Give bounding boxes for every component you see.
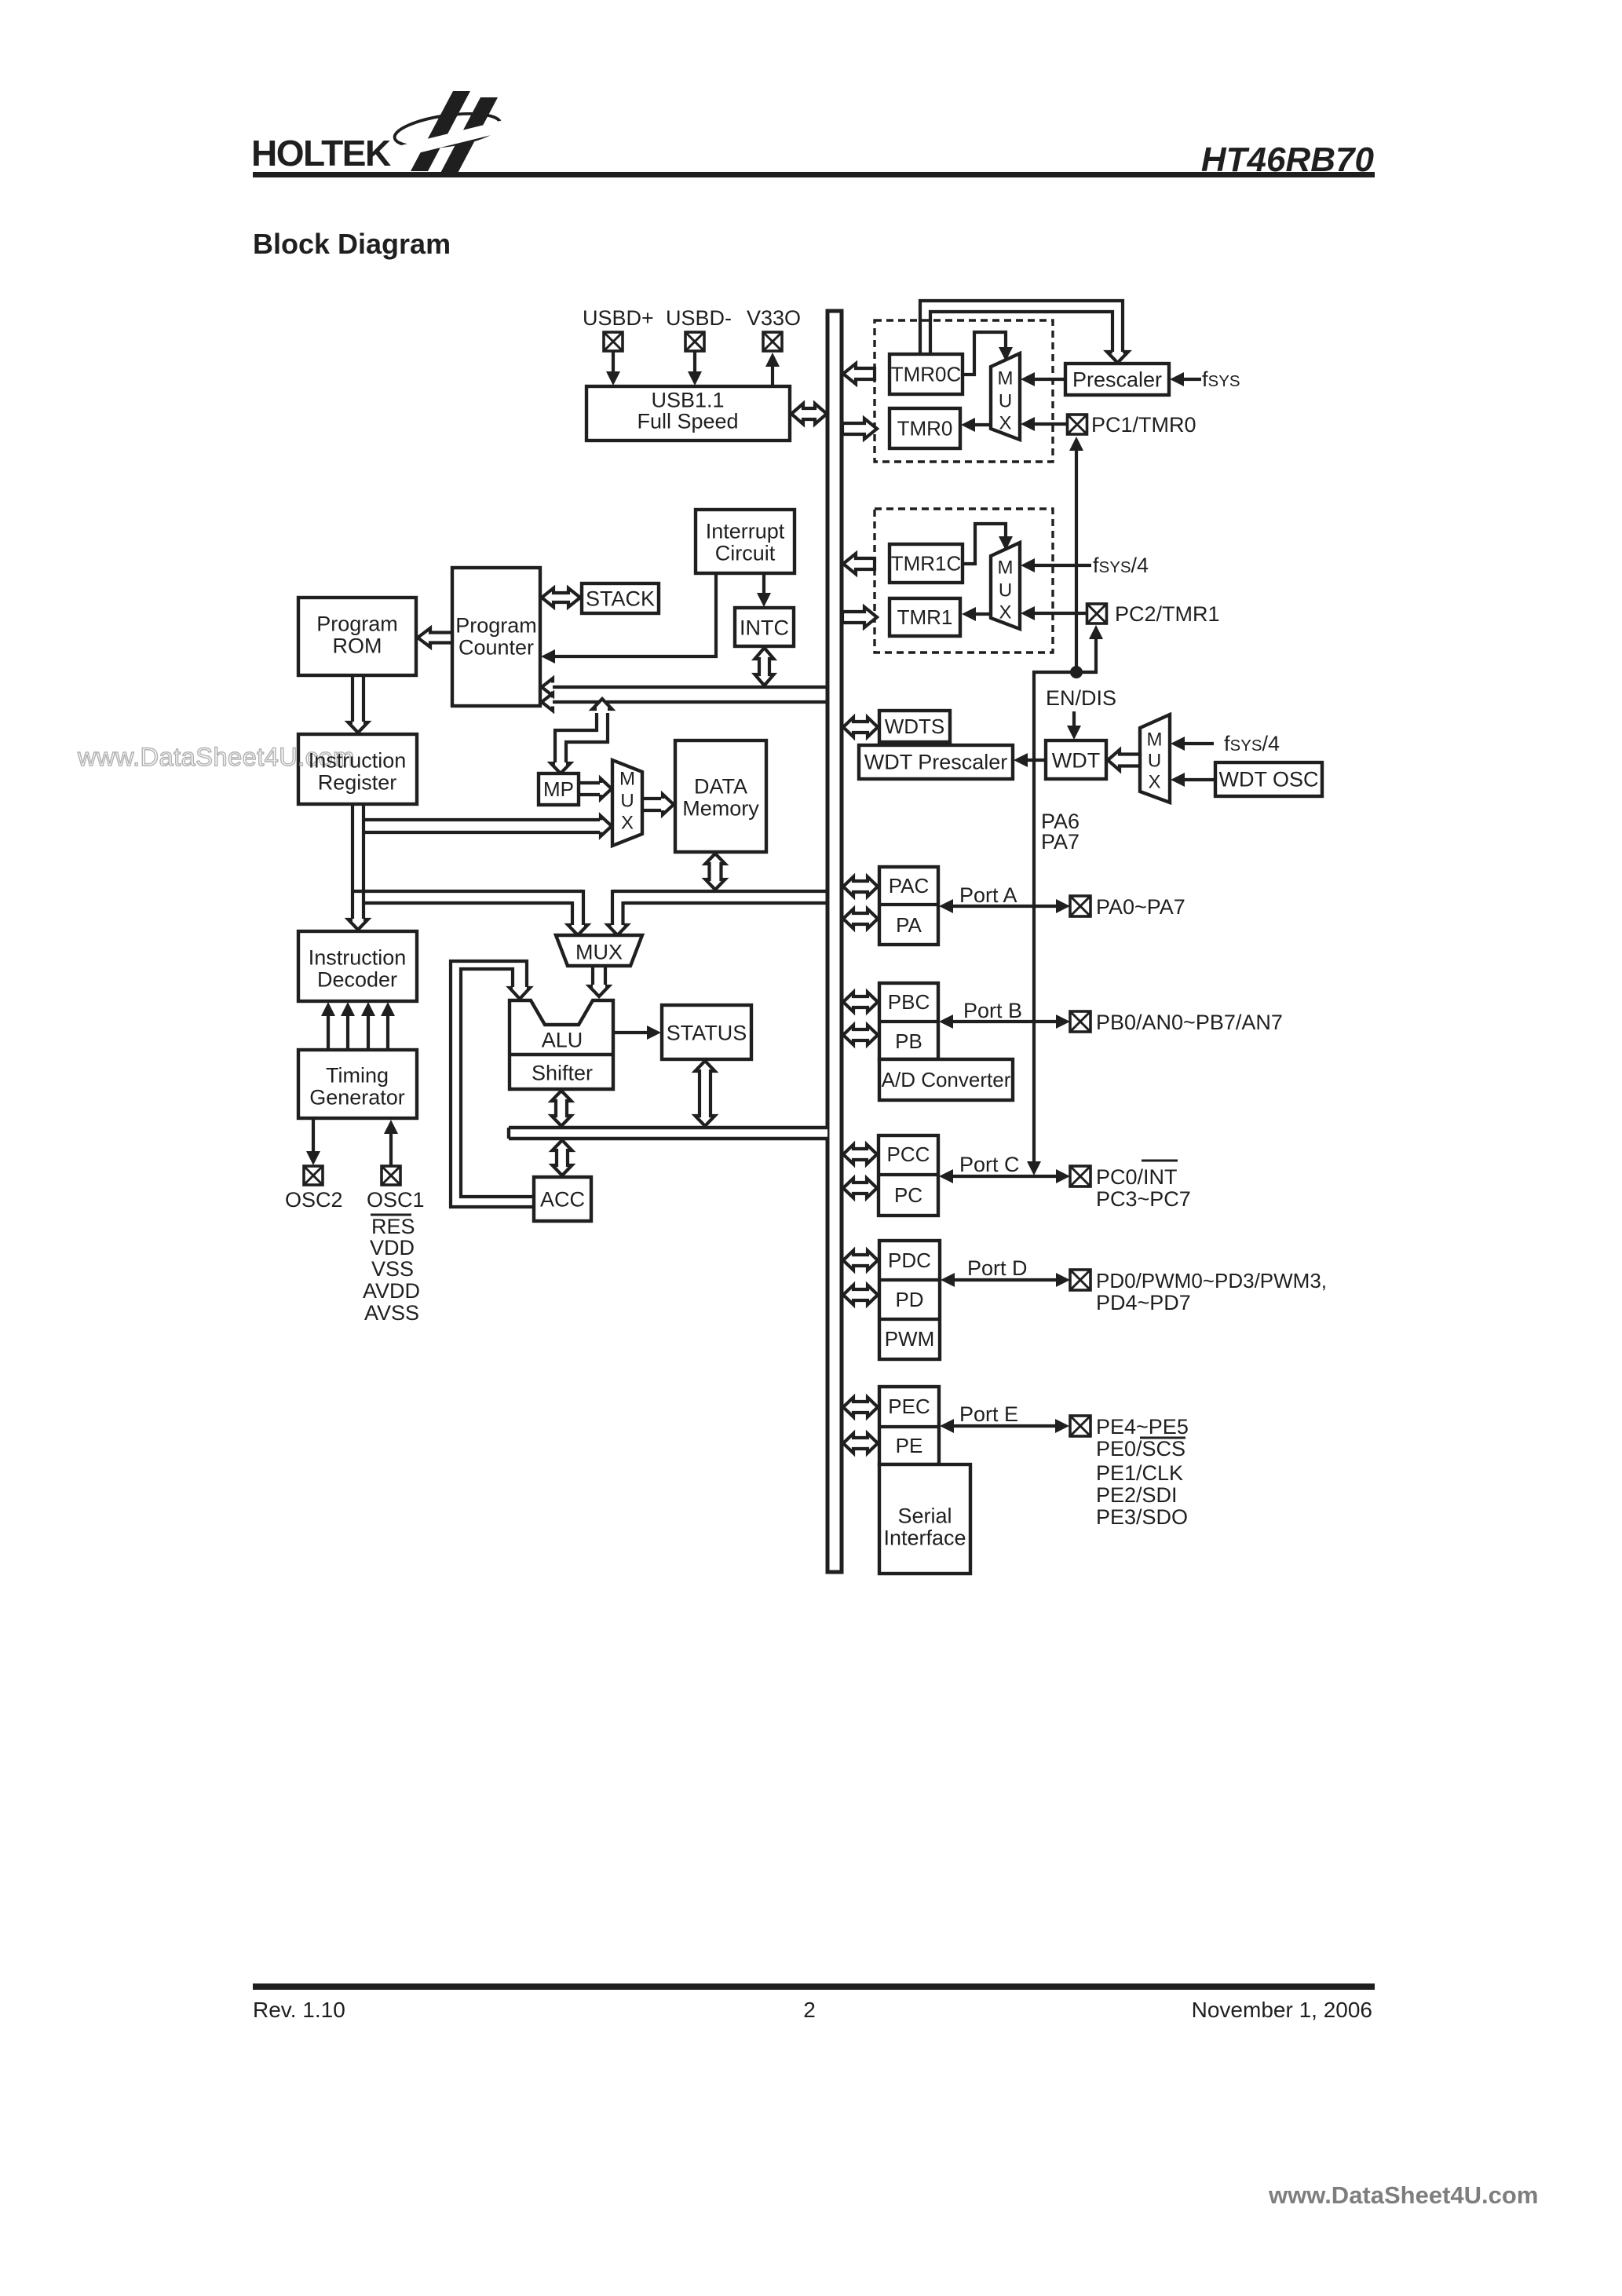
register TMR1C xyxy=(890,544,963,583)
register TMR0C xyxy=(890,354,963,394)
mux MUX (data memory address) xyxy=(612,760,642,846)
svg-text:M: M xyxy=(619,768,635,789)
block Program ROM xyxy=(298,598,416,675)
label OSC2 xyxy=(285,1188,343,1212)
label Port D xyxy=(967,1256,1028,1280)
wire USBD- to USB block xyxy=(688,351,702,386)
wire system bus to PCC (hollow double arrow) xyxy=(843,1145,877,1164)
wire system bus to TMR0 (hollow arrow right) xyxy=(842,419,877,439)
pin OSC1 xyxy=(382,1166,400,1185)
label OSC1 xyxy=(367,1188,425,1212)
watermark www.DataSheet4U.com (left, outline gray) xyxy=(77,743,355,771)
svg-text:PD: PD xyxy=(895,1288,923,1311)
svg-text:TMR1: TMR1 xyxy=(897,605,953,629)
label USBD- xyxy=(666,306,732,330)
label PD0/PWM0~PD3/PWM3, xyxy=(1096,1269,1327,1292)
svg-text:Timing: Timing xyxy=(326,1063,389,1087)
svg-text:PD0/PWM0~PD3/PWM3,: PD0/PWM0~PD3/PWM3, xyxy=(1096,1269,1327,1292)
svg-text:Shifter: Shifter xyxy=(532,1061,593,1084)
wire fsys/4 to MUX (Timer1) xyxy=(1021,558,1091,572)
svg-text:Port D: Port D xyxy=(967,1256,1028,1280)
wire MUX to TMR0 xyxy=(961,418,991,432)
block Instruction Register xyxy=(298,734,417,804)
svg-text:MUX: MUX xyxy=(575,940,623,963)
wire bus line 1 (bus to Program Counter) xyxy=(542,678,829,696)
label PE3/SDO xyxy=(1096,1505,1188,1529)
header rule xyxy=(253,172,1375,177)
label PC2/TMR1 xyxy=(1115,602,1220,626)
wire Shifter to internal bus (hollow double arrow) xyxy=(552,1091,572,1126)
wire Program Counter to Program ROM (hollow arrow) xyxy=(418,628,452,647)
footer revision xyxy=(253,1998,345,2022)
pin USBD- xyxy=(685,332,704,351)
wire USB block to V33O pin xyxy=(765,353,780,386)
label Port B xyxy=(963,999,1022,1022)
svg-text:Program: Program xyxy=(455,613,537,637)
block ACC xyxy=(534,1177,591,1221)
label USBD+ xyxy=(583,306,654,330)
block Interrupt Circuit xyxy=(696,510,795,573)
wire bus line 2 (bus to Program Counter) xyxy=(542,693,829,711)
wire system bus to Timer1 module (hollow arrow left) xyxy=(843,554,875,574)
block INTC xyxy=(735,608,794,646)
block Serial Interface xyxy=(879,1464,970,1574)
svg-text:INTC: INTC xyxy=(740,616,789,639)
footer page number xyxy=(803,1998,816,2022)
svg-text:PC1/TMR0: PC1/TMR0 xyxy=(1091,413,1196,437)
svg-text:TMR0C: TMR0C xyxy=(891,363,962,386)
wire internal line to system bus (upper right) xyxy=(612,890,829,893)
wire node to PC2 pin xyxy=(1076,625,1103,672)
svg-text:USBD+: USBD+ xyxy=(583,306,654,330)
svg-text:A/D Converter: A/D Converter xyxy=(882,1068,1011,1091)
wire TMR0C to MUX select xyxy=(963,332,1013,375)
mux MUX (ALU operand) xyxy=(556,935,642,966)
system data bus (vertical bus bar) xyxy=(827,311,842,1572)
label PE1/CLK xyxy=(1096,1461,1183,1485)
svg-text:PC0/INT: PC0/INT xyxy=(1096,1165,1178,1189)
label V33O xyxy=(747,306,801,330)
label fsys xyxy=(1202,367,1240,391)
wire USB block to system bus (hollow double arrow) xyxy=(791,404,827,424)
svg-text:Instruction: Instruction xyxy=(309,748,407,772)
register PBC and PB xyxy=(879,983,938,1059)
label PD4~PD7 xyxy=(1096,1291,1191,1314)
svg-text:PA: PA xyxy=(896,913,922,937)
svg-text:Port E: Port E xyxy=(959,1402,1018,1426)
svg-text:Interrupt: Interrupt xyxy=(706,519,785,543)
wire WDT OSC to MUX (WDT) xyxy=(1171,773,1215,787)
wire MUX to TMR1 xyxy=(962,607,991,621)
wire system bus to Timer0 module (hollow arrow left) xyxy=(843,364,875,384)
pin PB0/AN0~PB7/AN7 xyxy=(1070,1011,1090,1032)
pin V33O xyxy=(763,332,782,351)
wire WDT to WDT Prescaler xyxy=(1014,753,1046,767)
svg-text:AVSS: AVSS xyxy=(364,1301,419,1325)
wire system bus to WDTS (hollow double arrow) xyxy=(843,718,878,737)
label PC1/TMR0 xyxy=(1091,413,1196,437)
svg-text:fSYS/4: fSYS/4 xyxy=(1224,732,1280,755)
wire Interrupt Circuit to INTC xyxy=(757,573,771,607)
register PAC and PA xyxy=(879,867,938,945)
wire Port B to pin xyxy=(939,1015,1070,1029)
svg-text:U: U xyxy=(999,390,1012,411)
svg-text:M: M xyxy=(998,367,1014,389)
wire TMR1C to MUX select xyxy=(963,524,1013,564)
label PA6 xyxy=(1041,810,1080,833)
svg-text:Decoder: Decoder xyxy=(317,967,397,991)
svg-text:TMR1C: TMR1C xyxy=(891,552,962,576)
label VDD xyxy=(370,1236,415,1260)
register PCC and PC xyxy=(879,1135,938,1216)
svg-text:VSS: VSS xyxy=(371,1257,414,1281)
wire Timing Generator to Instruction Decoder (4 lines) xyxy=(321,1002,395,1050)
label AVDD xyxy=(363,1279,420,1303)
wire Port A to pin xyxy=(939,899,1070,913)
wire Program ROM to Instruction Register (hollow wire) xyxy=(349,675,368,733)
svg-text:U: U xyxy=(1148,750,1161,771)
internal bus (horizontal bus bar) xyxy=(509,1128,827,1139)
pin PC0/INT xyxy=(1070,1166,1090,1186)
wire system bus to PEC (hollow double arrow) xyxy=(843,1398,878,1417)
pin OSC2 xyxy=(304,1166,323,1185)
svg-text:www.DataSheet4U.com: www.DataSheet4U.com xyxy=(1268,2181,1538,2209)
wire PC1 pin down to node xyxy=(1069,437,1083,672)
title Block Diagram xyxy=(253,228,451,260)
label Port E xyxy=(959,1402,1018,1426)
block STACK xyxy=(582,583,659,613)
svg-text:STATUS: STATUS xyxy=(667,1021,747,1044)
svg-text:PE: PE xyxy=(896,1434,923,1457)
wire Program Counter to STACK (hollow double arrow) xyxy=(542,588,580,607)
register MP xyxy=(539,773,579,805)
register TMR0 xyxy=(890,408,960,448)
wire fsys to Prescaler xyxy=(1170,372,1201,386)
svg-text:Instruction: Instruction xyxy=(309,945,407,969)
wire ACC to ALU (hollow feedback loop) xyxy=(451,961,534,1207)
svg-text:M: M xyxy=(998,557,1014,578)
svg-text:PA0~PA7: PA0~PA7 xyxy=(1096,895,1185,919)
svg-text:HOLTEK: HOLTEK xyxy=(251,133,391,174)
svg-text:PE1/CLK: PE1/CLK xyxy=(1096,1461,1183,1485)
wire MUX to WDT (hollow arrow) xyxy=(1108,750,1140,770)
part number HT46RB70 xyxy=(1201,141,1375,179)
svg-text:PE0/SCS: PE0/SCS xyxy=(1096,1437,1185,1461)
svg-text:PE4~PE5: PE4~PE5 xyxy=(1096,1415,1189,1439)
label Port A xyxy=(959,883,1017,907)
block Instruction Decoder xyxy=(298,931,417,1001)
svg-text:PC: PC xyxy=(894,1183,922,1207)
svg-text:PD4~PD7: PD4~PD7 xyxy=(1096,1291,1191,1314)
wire system bus to PE (hollow double arrow) xyxy=(843,1434,878,1453)
pin PC2/TMR1 xyxy=(1087,604,1107,623)
pin USBD+ xyxy=(604,332,623,351)
svg-text:Rev. 1.10: Rev. 1.10 xyxy=(253,1998,345,2022)
svg-text:USB1.1: USB1.1 xyxy=(651,388,724,411)
wire ALU to STATUS xyxy=(613,1026,661,1040)
Holtek logo wordmark HOLTEK xyxy=(251,133,391,174)
dashed box Timer0 module xyxy=(875,320,1053,462)
svg-text:PB: PB xyxy=(895,1029,922,1053)
svg-text:Program: Program xyxy=(316,612,398,635)
block Program Counter xyxy=(452,568,540,706)
block WDT Prescaler xyxy=(859,745,1013,779)
svg-text:Port A: Port A xyxy=(959,883,1017,907)
svg-text:WDT Prescaler: WDT Prescaler xyxy=(864,750,1008,773)
svg-text:EN/DIS: EN/DIS xyxy=(1046,686,1116,710)
wire internal bus to ACC (hollow double arrow) xyxy=(553,1140,572,1175)
block Prescaler xyxy=(1065,364,1169,395)
svg-text:DATA: DATA xyxy=(694,774,747,798)
svg-text:AVDD: AVDD xyxy=(363,1279,420,1303)
svg-text:WDTS: WDTS xyxy=(885,715,945,738)
label PA0~PA7 xyxy=(1096,895,1185,919)
svg-text:PAC: PAC xyxy=(889,874,930,898)
svg-text:fSYS: fSYS xyxy=(1202,367,1240,391)
pin PA0~PA7 xyxy=(1070,896,1090,916)
svg-text:U: U xyxy=(999,579,1012,601)
wire PC2 pin to MUX (Timer1) xyxy=(1021,606,1087,620)
wire MUX to Data Memory xyxy=(642,795,674,815)
svg-text:November 1, 2006: November 1, 2006 xyxy=(1192,1998,1372,2022)
wire Timing Generator to OSC2 xyxy=(306,1118,320,1165)
svg-text:Counter: Counter xyxy=(458,635,534,659)
footer rule xyxy=(253,1983,1375,1990)
svg-text:Block Diagram: Block Diagram xyxy=(253,228,451,260)
register TMR1 xyxy=(890,598,960,636)
svg-text:PCC: PCC xyxy=(887,1143,930,1166)
wire MUX to ALU xyxy=(590,966,609,996)
svg-text:PDC: PDC xyxy=(888,1249,931,1272)
svg-text:X: X xyxy=(1148,771,1160,792)
svg-text:WDT OSC: WDT OSC xyxy=(1219,767,1319,791)
svg-text:fSYS/4: fSYS/4 xyxy=(1093,554,1149,577)
svg-text:Memory: Memory xyxy=(682,796,759,820)
node junction (EN/DIS net) xyxy=(1070,666,1083,678)
label fsys/4 (WDT) xyxy=(1224,732,1280,755)
wire USBD+ to USB block xyxy=(606,351,620,386)
wire system bus to PAC (hollow double arrow) xyxy=(843,877,878,897)
svg-text:ROM: ROM xyxy=(333,634,382,657)
svg-text:Port C: Port C xyxy=(959,1153,1020,1176)
svg-text:PC2/TMR1: PC2/TMR1 xyxy=(1115,602,1220,626)
svg-text:PEC: PEC xyxy=(888,1395,930,1418)
svg-text:Interface: Interface xyxy=(883,1526,966,1549)
label Port C xyxy=(959,1153,1020,1176)
svg-text:Generator: Generator xyxy=(309,1085,405,1109)
wire Port E to pin xyxy=(940,1419,1069,1433)
svg-text:M: M xyxy=(1147,729,1163,750)
wire internal line segment (lower left) xyxy=(363,901,572,905)
svg-text:ALU: ALU xyxy=(542,1028,583,1051)
wire bus to MUX right input (hollow riser) xyxy=(608,890,627,935)
wire OSC1 to Timing Generator xyxy=(384,1120,398,1167)
svg-text:VDD: VDD xyxy=(370,1236,415,1260)
wire internal line to system bus (upper left) xyxy=(353,890,583,893)
block A/D Converter xyxy=(879,1059,1013,1100)
block WDT OSC xyxy=(1215,762,1322,796)
svg-text:Register: Register xyxy=(318,770,397,794)
wire Instruction Register to MUX (data memory) xyxy=(363,816,612,836)
wire Instruction Register trunk down xyxy=(353,804,363,919)
svg-text:PB0/AN0~PB7/AN7: PB0/AN0~PB7/AN7 xyxy=(1096,1011,1283,1034)
block DATA Memory xyxy=(675,740,766,852)
register PEC and PE xyxy=(879,1387,939,1464)
wire Instruction Register to Instruction Decoder (hollow arrow) xyxy=(349,919,368,930)
wire Prescaler to MUX (Timer0) xyxy=(1021,372,1065,386)
svg-text:USBD-: USBD- xyxy=(666,306,732,330)
wire MP to MUX (data memory) xyxy=(579,779,612,799)
label RES (active low) xyxy=(371,1215,415,1238)
wire PC1 pin to MUX (Timer0) xyxy=(1021,417,1067,431)
svg-text:ACC: ACC xyxy=(540,1187,585,1211)
label EN/DIS xyxy=(1046,686,1116,710)
block STATUS xyxy=(662,1005,751,1059)
mux MUX (WDT clock) xyxy=(1140,715,1170,803)
wire Data Memory to internal line (hollow double arrow) xyxy=(706,854,725,890)
wire node to Port C line (PA6/PA7 net) xyxy=(1027,672,1076,1175)
svg-text:X: X xyxy=(621,812,634,833)
svg-text:Full Speed: Full Speed xyxy=(637,409,738,433)
svg-text:OSC2: OSC2 xyxy=(285,1188,343,1212)
watermark www.DataSheet4U.com (bottom right) xyxy=(1268,2181,1538,2209)
wire system bus to PA (hollow double arrow) xyxy=(843,909,878,929)
Holtek logo mark (double-slash in ellipse) xyxy=(393,91,513,177)
mux MUX (Timer0) xyxy=(991,353,1020,440)
svg-text:PC3~PC7: PC3~PC7 xyxy=(1096,1187,1191,1211)
label Instruction Register xyxy=(309,748,407,794)
pin PD0/PWM0 xyxy=(1070,1270,1090,1290)
wire system bus to TMR1 (hollow arrow right) xyxy=(842,607,877,627)
wire internal line segment (lower right) xyxy=(623,901,830,905)
block WDT xyxy=(1046,740,1106,779)
svg-text:X: X xyxy=(999,412,1011,433)
svg-text:WDT: WDT xyxy=(1052,748,1100,772)
label PE0/SCS (SCS active low) xyxy=(1096,1437,1185,1461)
wire system bus to PDC (hollow double arrow) xyxy=(843,1251,878,1270)
label fsys/4 (Timer1) xyxy=(1093,554,1149,577)
footer date xyxy=(1192,1998,1372,2022)
svg-text:PWM: PWM xyxy=(885,1327,935,1351)
label PE2/SDI xyxy=(1096,1483,1178,1507)
label PB0/AN0~PB7/AN7 xyxy=(1096,1011,1283,1034)
block Timing Generator xyxy=(298,1050,417,1118)
svg-text:U: U xyxy=(620,790,634,811)
svg-text:PA7: PA7 xyxy=(1041,830,1080,854)
register WDTS xyxy=(879,711,950,742)
svg-text:STACK: STACK xyxy=(586,587,655,610)
wire fsys/4 to MUX (WDT) xyxy=(1171,737,1214,751)
svg-text:Prescaler: Prescaler xyxy=(1072,367,1162,391)
svg-text:Circuit: Circuit xyxy=(715,541,776,565)
pin PC1/TMR0 xyxy=(1068,415,1087,434)
svg-text:V33O: V33O xyxy=(747,306,801,330)
wire system bus to PC (hollow double arrow) xyxy=(843,1179,877,1198)
label PC3~PC7 xyxy=(1096,1187,1191,1211)
mux MUX (Timer1) xyxy=(991,543,1020,629)
svg-text:PE2/SDI: PE2/SDI xyxy=(1096,1483,1178,1507)
block ALU with Shifter xyxy=(510,1000,613,1089)
svg-text:TMR0: TMR0 xyxy=(897,417,953,441)
svg-text:PBC: PBC xyxy=(888,990,930,1014)
svg-text:RES: RES xyxy=(371,1215,415,1238)
label VSS xyxy=(371,1257,414,1281)
wire STATUS to internal bus (hollow double arrow) xyxy=(696,1061,715,1126)
label PC0/INT (INT active low) xyxy=(1096,1161,1178,1189)
svg-text:2: 2 xyxy=(803,1998,816,2022)
wire bus line 2 to MP (hollow wire with up arrow) xyxy=(551,699,612,773)
wire system bus to PD (hollow double arrow) xyxy=(843,1285,878,1305)
svg-text:MP: MP xyxy=(543,777,574,801)
wire EN/DIS to WDT xyxy=(1067,711,1081,740)
svg-text:PE3/SDO: PE3/SDO xyxy=(1096,1505,1188,1529)
svg-text:Serial: Serial xyxy=(897,1504,952,1527)
label AVSS xyxy=(364,1301,419,1325)
block USB1.1 Full Speed xyxy=(586,386,790,441)
wire Port C to pin xyxy=(939,1169,1070,1183)
pin PE4~PE5 xyxy=(1070,1416,1090,1436)
label PE4~PE5 xyxy=(1096,1415,1189,1439)
svg-text:Port B: Port B xyxy=(963,999,1022,1022)
label PA7 xyxy=(1041,830,1080,854)
wire INTC to PC bus line (hollow double arrow) xyxy=(755,648,774,686)
wire to MUX left input (hollow riser) xyxy=(568,890,588,935)
register PDC PD PWM xyxy=(879,1241,940,1359)
svg-text:X: X xyxy=(999,601,1011,623)
wire Interrupt Circuit to Program Counter xyxy=(541,573,716,664)
dashed box Timer1 module xyxy=(875,509,1053,653)
wire TMR0C to Prescaler (hollow loop) xyxy=(920,301,1128,363)
wire system bus to PBC (hollow double arrow) xyxy=(843,993,878,1012)
svg-text:OSC1: OSC1 xyxy=(367,1188,425,1212)
wire Port D to pin xyxy=(941,1273,1070,1287)
wire system bus to PB (hollow double arrow) xyxy=(843,1026,878,1045)
